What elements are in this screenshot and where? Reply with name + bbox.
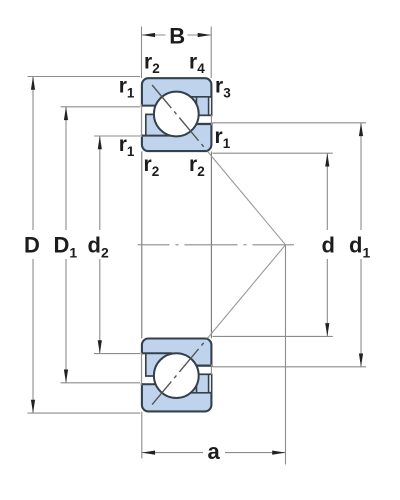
svg-text:d: d — [322, 233, 335, 258]
svg-text:r2: r2 — [189, 153, 205, 179]
svg-text:r2: r2 — [144, 153, 160, 179]
svg-text:D1: D1 — [54, 233, 78, 261]
svg-text:r4: r4 — [189, 50, 205, 76]
svg-text:r1: r1 — [119, 75, 135, 101]
svg-text:D: D — [24, 233, 40, 258]
svg-text:r1: r1 — [215, 125, 231, 151]
svg-text:r3: r3 — [215, 75, 231, 101]
svg-text:B: B — [169, 24, 185, 49]
svg-text:a: a — [208, 439, 221, 464]
svg-text:r2: r2 — [144, 50, 160, 76]
svg-text:r1: r1 — [119, 133, 135, 159]
svg-text:d2: d2 — [88, 233, 109, 261]
svg-text:d1: d1 — [349, 233, 370, 261]
